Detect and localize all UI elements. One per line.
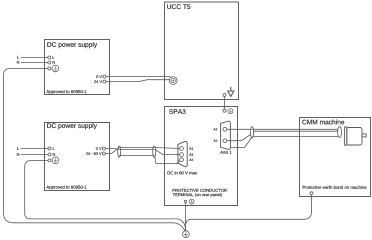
wire 24V PS1 to UCC connector bbox=[106, 80, 170, 82]
label pin A2 DC-in bbox=[189, 153, 193, 155]
pin A3 DC-in bbox=[180, 158, 184, 162]
label SPA3 bbox=[169, 109, 185, 114]
label N terminal PS2 bbox=[53, 153, 55, 156]
motor M1 shaft bbox=[362, 134, 366, 137]
cable W2 conductor 2 bbox=[254, 130, 339, 132]
terminal PE PS1 bbox=[48, 67, 51, 70]
motor M1 flange bbox=[345, 127, 347, 145]
label N terminal PS1 bbox=[53, 61, 55, 64]
connector J1 on UCC T5 (bullseye) bbox=[169, 77, 177, 85]
pin A1 Axis1 bbox=[223, 127, 227, 131]
cable W1 sheath bottom bbox=[119, 155, 154, 157]
wire L mains to PS1 bbox=[21, 57, 48, 59]
label L mains PS2 bbox=[17, 147, 19, 150]
connector Axis 1 on SPA3 (D shell) bbox=[221, 121, 231, 149]
label Approved to 60950-1 PS2 bbox=[46, 186, 86, 190]
label pin A2 Axis1 bbox=[214, 140, 218, 142]
pin A2 Axis1 bbox=[223, 139, 227, 143]
label 24 - 80 V PS2 bbox=[86, 152, 102, 155]
label PROTECTIVE CONDUCTOR bbox=[173, 189, 227, 192]
label DC in 80 V max bbox=[168, 171, 198, 174]
wire cable to pin A1 DC-in bbox=[155, 148, 180, 149]
label pin A1 DC-in bbox=[189, 147, 193, 149]
cable W2 sheath left end bbox=[251, 127, 254, 138]
label UCC T5 bbox=[167, 4, 190, 9]
label 0 V PS1 bbox=[96, 75, 102, 78]
ground symbol SPA3 bottom (earth in circle) bbox=[189, 199, 194, 204]
UCC T5 box U1 bbox=[165, 2, 239, 100]
top DC power supply box PS1 bbox=[45, 40, 110, 95]
CMM machine box bbox=[300, 118, 371, 197]
terminal 24-80V PS2 bbox=[102, 152, 105, 155]
cable W2 sheath right end (motor connector) bbox=[338, 127, 342, 138]
wire 24-80V PS2 to cable W1 bbox=[105, 148, 119, 154]
terminal N PS2 bbox=[48, 153, 51, 156]
wire 0V PS2 to cable W1 bbox=[105, 148, 119, 151]
shield wire cable to pin A3 DC-in bbox=[154, 157, 179, 164]
earth node ground symbol (earth in circle) bbox=[183, 231, 190, 238]
bottom DC power supply box PS2 bbox=[45, 123, 110, 191]
label TERMINAL (on rear panel) bbox=[173, 193, 222, 197]
label L terminal PS1 bbox=[53, 56, 55, 59]
cable W1 conductor 1 bbox=[119, 147, 154, 149]
terminal PE CMM machine bbox=[310, 192, 313, 195]
terminal PE PS2 bbox=[48, 159, 51, 162]
label N mains PS2 bbox=[17, 153, 19, 156]
functional earth arrow symbol UCC T5 bbox=[228, 87, 234, 97]
SPA3 box bbox=[165, 107, 238, 206]
wire cable to pin A2 DC-in bbox=[155, 150, 180, 155]
earth wire PS2 to earth node bbox=[25, 161, 186, 231]
connector DC-in on SPA3 (D shell) bbox=[178, 141, 187, 166]
ground symbol PS1 (earth in circle) bbox=[52, 65, 59, 72]
wire Axis1 A1 to motor cable bbox=[227, 128, 251, 130]
cable W1 sheath right end bbox=[153, 146, 156, 157]
label L terminal PS2 bbox=[53, 147, 55, 150]
label pin A1 Axis1 bbox=[214, 128, 218, 130]
terminal N PS1 bbox=[48, 61, 51, 64]
shield wire Axis1 shell to motor cable bbox=[231, 137, 253, 148]
pin A2 DC-in bbox=[180, 153, 184, 157]
cable W2 conductor 1 bbox=[252, 128, 338, 130]
cable W2 sheath bottom bbox=[253, 136, 339, 138]
terminal 24V PS1 bbox=[103, 80, 106, 83]
terminal L PS2 bbox=[48, 147, 51, 150]
wire SPA3 PE down to earth node bbox=[185, 203, 187, 231]
wire N mains to PS2 bbox=[21, 154, 48, 156]
label DC power supply PS2 bbox=[47, 123, 97, 129]
label pin A3 DC-in bbox=[189, 159, 193, 161]
terminal PE SPA3 bottom bbox=[184, 200, 186, 202]
ground symbol SPA3 top (earth in circle) bbox=[228, 109, 233, 114]
terminal L PS1 bbox=[48, 56, 51, 59]
earth wire PS1 to earth node bbox=[4, 69, 185, 232]
terminal 0V PS1 bbox=[103, 75, 106, 78]
wire CMM PE to earth node bbox=[186, 195, 312, 224]
terminal 0V PS2 bbox=[102, 147, 105, 150]
cable W1 conductor 2 bbox=[119, 148, 154, 150]
label DC power supply PS1 bbox=[47, 42, 97, 48]
cable W1 sheath left end bbox=[118, 146, 121, 157]
label Axis 1 bbox=[220, 151, 231, 154]
label CMM machine bbox=[302, 120, 344, 125]
wire L mains to PS2 bbox=[21, 148, 48, 150]
wire N mains to PS1 bbox=[21, 62, 48, 64]
pin A1 DC-in bbox=[180, 147, 184, 151]
wire Axis1 A2 to motor cable bbox=[227, 135, 251, 141]
motor M1 body bbox=[347, 128, 362, 146]
terminal FE SPA3 top bbox=[223, 109, 226, 112]
TEXTSTART bbox=[17, 4, 367, 197]
ground symbol PS2 (earth in circle) bbox=[52, 157, 59, 164]
wire 0V PS1 to UCC connector bbox=[106, 76, 171, 78]
label Protective earth bond on machine bbox=[303, 186, 367, 189]
wire UCC FE to SPA3 bbox=[224, 97, 226, 110]
label N mains PS1 bbox=[17, 61, 19, 64]
label L mains PS1 bbox=[17, 56, 19, 59]
label 24 V PS1 bbox=[94, 80, 102, 83]
label Approved to 60950-1 PS1 bbox=[46, 90, 86, 94]
label 0 V PS2 bbox=[96, 147, 102, 150]
terminal FE UCC T5 bbox=[223, 94, 226, 97]
